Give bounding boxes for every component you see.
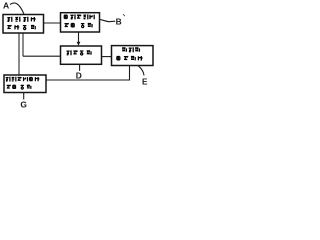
box G text row 1 bbox=[6, 77, 40, 82]
box E text row 2 bbox=[117, 56, 143, 61]
leader curve to label B bbox=[100, 19, 116, 21]
wire box D to box E bbox=[102, 56, 112, 58]
box G (tone select output means) bbox=[4, 75, 46, 93]
svg-text:G: G bbox=[20, 100, 27, 110]
box A text row 1 bbox=[7, 17, 35, 22]
svg-text:B: B bbox=[116, 17, 122, 27]
box D text bbox=[67, 50, 92, 55]
box E (main voice detect means) bbox=[112, 46, 154, 66]
box E text row 1 bbox=[122, 47, 139, 52]
leader curve to label E bbox=[138, 66, 144, 76]
tick to label G bbox=[23, 93, 25, 100]
arrow box B down to box D bbox=[78, 32, 80, 43]
svg-text:D: D bbox=[76, 71, 82, 81]
tick to label D bbox=[79, 64, 81, 71]
svg-text:E: E bbox=[142, 77, 148, 86]
bus line 1: box A to box G bbox=[18, 33, 20, 75]
wire box A to box B bbox=[44, 22, 61, 24]
box G text row 2 bbox=[7, 85, 31, 89]
box B (remote playback recording means) bbox=[61, 13, 100, 32]
wire box E bottom down-left to box G bbox=[46, 66, 130, 80]
stray mark bbox=[123, 14, 125, 16]
svg-text:A: A bbox=[3, 1, 9, 11]
box D (playback means) bbox=[61, 46, 102, 64]
box B text row 1 bbox=[64, 14, 94, 19]
leader arc from A to box A bbox=[10, 3, 24, 14]
bus line 2: box A down then right to box D bbox=[22, 33, 24, 56]
box A (transfer control means) bbox=[3, 15, 44, 34]
box A text row 2 bbox=[7, 25, 35, 30]
wire from bus to box D (left entry) bbox=[23, 55, 61, 57]
box B text row 2 bbox=[65, 23, 93, 27]
